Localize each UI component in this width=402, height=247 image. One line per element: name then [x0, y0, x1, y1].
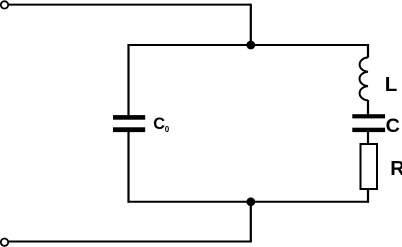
terminal T2 (bottom-left open circle) [1, 239, 8, 246]
label C0 [153, 115, 170, 134]
svg-text:C: C [386, 115, 400, 137]
wire between C and R [367, 132, 369, 145]
wire top lead from T1 to top corner [8, 4, 251, 6]
terminal T1 (top-left open circle) [1, 1, 8, 8]
svg-text:0: 0 [165, 125, 170, 134]
svg-text:L: L [385, 73, 398, 96]
wire bottom rail [128, 201, 370, 203]
wire left branch lower segment [127, 132, 129, 203]
svg-text:R: R [390, 158, 402, 180]
resistor R [361, 144, 378, 189]
wire between L and C [367, 100, 369, 115]
wire left branch upper segment [127, 44, 129, 115]
node bottom junction [246, 197, 255, 206]
inductor L [360, 57, 368, 100]
svg-text:C: C [153, 115, 165, 133]
capacitor C0 [113, 115, 145, 132]
wire top rail [128, 44, 370, 46]
wire vertical drop from top corner to top node [250, 5, 252, 45]
wire vertical drop from bottom node to bottom corner [250, 202, 252, 242]
wire bottom lead from bottom corner to T2 [8, 241, 251, 243]
capacitor C [352, 114, 385, 132]
node top junction [246, 41, 255, 50]
wire right branch bottom segment [367, 189, 369, 203]
wire right branch top segment [367, 44, 369, 58]
